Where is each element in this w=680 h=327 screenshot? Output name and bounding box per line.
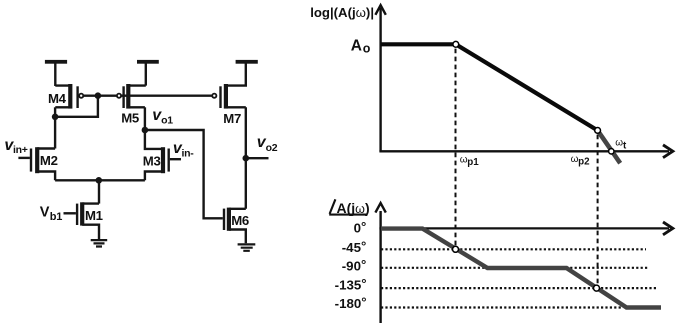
wire M4 drain down bbox=[54, 107, 56, 148]
node dot tail bbox=[96, 177, 103, 184]
svg-text:b1: b1 bbox=[50, 211, 62, 223]
svg-text:M2: M2 bbox=[40, 153, 58, 168]
wire gate line M4 to M7 bbox=[83, 94, 212, 96]
bubble M5 gate bbox=[117, 94, 121, 98]
vdd rail bar above M5 bbox=[137, 60, 159, 64]
wire M4 source to rail bbox=[54, 64, 56, 87]
transistor M7 body bbox=[226, 106, 246, 108]
svg-text:in-: in- bbox=[182, 148, 195, 160]
dashed line wp2 bbox=[597, 135, 599, 285]
marker circle wt bbox=[609, 149, 614, 154]
svg-text:M6: M6 bbox=[231, 213, 249, 228]
phase curve bbox=[381, 229, 661, 308]
wire M5 source to rail bbox=[128, 64, 146, 86]
wire tail to M1 drain bbox=[98, 180, 100, 203]
wire tail node bbox=[55, 179, 145, 181]
axis Y bottom plot bbox=[379, 211, 381, 323]
svg-text:M7: M7 bbox=[223, 111, 241, 126]
svg-text:p2: p2 bbox=[578, 157, 590, 168]
svg-text:o1: o1 bbox=[161, 114, 173, 126]
svg-text:-90°: -90° bbox=[342, 257, 367, 274]
ground below M1 bbox=[91, 240, 108, 246]
svg-text:o2: o2 bbox=[266, 142, 278, 154]
gain -20dB segment bbox=[456, 44, 598, 130]
axis X bottom plot bbox=[379, 227, 669, 229]
dotted line -45 bbox=[381, 248, 646, 250]
wire vo1 to M6 gate bbox=[145, 130, 223, 218]
wire M7 source to rail bbox=[226, 64, 246, 86]
wire vo2 stub bbox=[246, 157, 269, 159]
gain flat segment bbox=[381, 42, 456, 46]
svg-text:M4: M4 bbox=[48, 91, 67, 106]
transistor M4 body bbox=[55, 86, 70, 108]
wire M7 drain down to M6 bbox=[245, 107, 247, 209]
dotted line -90 bbox=[381, 267, 648, 269]
node dot gate junction bbox=[95, 92, 102, 99]
svg-text:-180°: -180° bbox=[335, 295, 367, 312]
marker circle wp1 bbox=[453, 41, 459, 47]
svg-text:o: o bbox=[363, 41, 371, 55]
svg-text:M5: M5 bbox=[121, 111, 139, 126]
bubble M7 gate bbox=[212, 94, 216, 98]
transistor M3 body bbox=[170, 158, 181, 160]
marker circle phase wp2 bbox=[594, 285, 600, 291]
axis Y top plot bbox=[379, 8, 381, 152]
node dot vo1 bbox=[142, 127, 149, 134]
node dot M4 drain bbox=[52, 114, 59, 121]
svg-text:-135°: -135° bbox=[335, 276, 367, 293]
wire M5 drain to node vo1 bbox=[144, 107, 146, 130]
vdd rail bar above M7 bbox=[236, 60, 258, 64]
svg-text:V: V bbox=[40, 205, 50, 221]
node dot vo2 bbox=[243, 155, 250, 162]
transistor M5 body bbox=[128, 106, 145, 108]
svg-text:M3: M3 bbox=[143, 153, 161, 168]
transistor M2 body bbox=[18, 157, 30, 159]
transistor M6 body bbox=[223, 209, 225, 230]
svg-text:0°: 0° bbox=[354, 219, 367, 236]
marker circle wp2 bbox=[595, 127, 601, 133]
vdd rail bar above M4 bbox=[45, 60, 67, 64]
svg-text:A: A bbox=[351, 38, 362, 55]
dotted line -135 bbox=[381, 287, 658, 289]
svg-text:p1: p1 bbox=[467, 157, 479, 168]
dotted line -180 bbox=[381, 306, 623, 308]
bubble M4 gate bbox=[79, 94, 83, 98]
svg-text:log|(A(jω)|: log|(A(jω)| bbox=[310, 5, 374, 20]
label angle A(jw) bbox=[329, 199, 367, 214]
dashed line wp1 bbox=[455, 49, 457, 246]
svg-text:in+: in+ bbox=[13, 144, 28, 156]
wire M4 gate-drain feedback bbox=[55, 96, 98, 117]
svg-text:A(jω): A(jω) bbox=[337, 200, 370, 216]
svg-text:t: t bbox=[623, 140, 627, 151]
transistor M1 body bbox=[64, 212, 76, 214]
ground below M6 bbox=[238, 244, 256, 250]
gain -40dB segment bbox=[598, 130, 621, 163]
marker circle phase wp1 bbox=[453, 246, 459, 252]
svg-text:-45°: -45° bbox=[342, 239, 367, 256]
svg-text:M1: M1 bbox=[85, 208, 103, 223]
axis X top plot bbox=[379, 150, 669, 152]
